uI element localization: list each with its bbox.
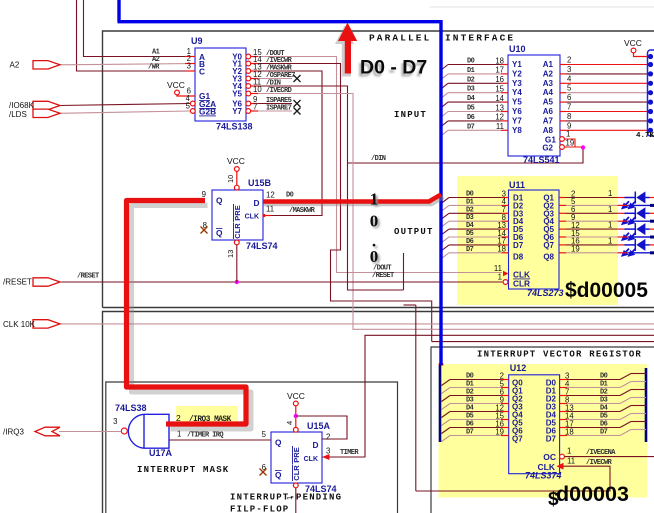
svg-text:1: 1: [608, 236, 612, 245]
U15B CLR bubble: [234, 240, 239, 245]
port /LDS: [33, 109, 60, 117]
port /IO68K: [33, 101, 60, 109]
U9 left pin stubs: [185, 56, 195, 58]
wire U11 Q1 output row: [559, 197, 566, 199]
wire U12 Q1 row (left): [450, 387, 501, 389]
no-connect X ISPARE7: [294, 108, 301, 115]
bus line left of U12: [439, 365, 442, 442]
svg-text:D0: D0: [466, 373, 474, 381]
wire U17A output to /IRQ3 port: [59, 431, 121, 433]
net TIMER to U15A.CLK: [322, 335, 654, 457]
svg-text:U17A: U17A: [149, 448, 173, 458]
svg-text:CLR: CLR: [292, 465, 301, 481]
svg-text:/IVECRD: /IVECRD: [266, 87, 292, 95]
svg-text:4: 4: [285, 421, 294, 425]
wire U12 D6 row (right): [560, 427, 567, 429]
U15B VCC circle: [234, 167, 239, 172]
register U11 74LS273: [509, 190, 560, 289]
svg-text:0: 0: [370, 247, 379, 266]
svg-text:CLK: CLK: [304, 456, 318, 463]
red annotation arrow shadow: [335, 26, 354, 77]
svg-text:A1: A1: [543, 60, 554, 69]
wire U12 D5 row (right): [560, 419, 567, 421]
U9 pin4 bubble: [190, 101, 195, 106]
svg-text:A8: A8: [543, 126, 554, 135]
wire U12 Q4 row (left): [450, 411, 501, 413]
svg-text:1: 1: [608, 205, 612, 214]
svg-text:1: 1: [566, 130, 570, 139]
svg-text:C: C: [199, 67, 205, 77]
svg-text:D5: D5: [600, 413, 608, 421]
svg-text:D1: D1: [466, 198, 474, 206]
svg-text:Y3: Y3: [512, 79, 522, 88]
svg-text:D0: D0: [466, 191, 474, 199]
wire U11 D2 input row: [449, 212, 502, 214]
svg-text:/LDS: /LDS: [9, 110, 27, 119]
svg-text:12: 12: [266, 191, 275, 200]
svg-text:D0: D0: [467, 58, 475, 66]
svg-text:A4: A4: [543, 88, 554, 97]
svg-text:Q: Q: [216, 196, 223, 206]
svg-text:19: 19: [571, 245, 580, 254]
wire A2 input to U9 pin2: [59, 64, 195, 65]
wire U12 D2 row (right): [560, 395, 567, 397]
red tick at bus top: [439, 363, 444, 366]
wire U11 Q5 output row: [559, 228, 566, 230]
svg-text:3: 3: [187, 62, 191, 71]
svg-text:INPUT: INPUT: [394, 110, 427, 120]
wire U10 D6 input row: [448, 120, 501, 122]
highlight /IRQ3 MASK label: [176, 406, 238, 423]
svg-text:16: 16: [495, 75, 504, 84]
svg-text:CLK: CLK: [538, 462, 556, 472]
svg-text:D6: D6: [467, 114, 475, 122]
wire U12 Q2 row (left): [450, 395, 501, 397]
bus line right of U12: [645, 368, 648, 442]
svg-text:/IVECWR: /IVECWR: [586, 459, 613, 467]
wire U10 D2 input row: [448, 82, 501, 84]
svg-text:0: 0: [370, 212, 379, 231]
wire U11 Q2 output row: [559, 204, 566, 206]
wire U10 A2 output row to resistor pack: [560, 73, 566, 75]
wire U10 D7 input row: [448, 129, 501, 131]
wire U10 G1 loop: [565, 139, 576, 147]
svg-text:TIMER: TIMER: [340, 449, 359, 457]
svg-text:Q: Q: [275, 470, 282, 480]
wire U11 D7 input row: [449, 252, 502, 254]
U15A CLR bubble: [293, 483, 298, 488]
svg-text:VCC: VCC: [287, 391, 305, 401]
svg-text:Y1: Y1: [512, 60, 522, 69]
wire U11 Q4 output row: [559, 220, 566, 222]
wire /IO68K to U9 pin4: [59, 104, 191, 106]
svg-text:INTERFACE: INTERFACE: [445, 33, 515, 44]
svg-text:PRE: PRE: [292, 447, 301, 462]
svg-text:74LS374: 74LS374: [525, 471, 562, 481]
net CLK 10K horizontal: [39, 323, 654, 325]
svg-text:D0: D0: [600, 373, 608, 381]
wire U12 Q0 row (left): [450, 379, 501, 381]
svg-text:INTERRUPT MASK: INTERRUPT MASK: [137, 465, 229, 475]
wire U11 D6 input row: [449, 244, 502, 246]
wire U10 A5 output row to resistor pack: [560, 101, 566, 103]
LED emission arrows: [623, 249, 636, 256]
U9 output bubbles and stubs: [249, 56, 259, 58]
svg-text:A7: A7: [543, 116, 554, 125]
svg-text:D8: D8: [513, 252, 524, 261]
svg-text:13: 13: [495, 103, 504, 112]
svg-text:7: 7: [567, 103, 571, 112]
svg-text:CLR: CLR: [513, 279, 530, 289]
svg-text:1: 1: [498, 273, 502, 282]
svg-text:VCC: VCC: [227, 156, 245, 166]
red annotation highlight path (U15B.Q to IRQ3 mask): [127, 201, 247, 425]
svg-text:D2: D2: [600, 389, 608, 397]
svg-text:74LS138: 74LS138: [216, 122, 253, 132]
svg-text:D: D: [254, 198, 260, 208]
svg-text:FILP-FLOP: FILP-FLOP: [230, 505, 289, 513]
interrupt vector register block frame: [431, 347, 654, 513]
svg-text:Q8: Q8: [543, 252, 554, 261]
svg-text:9: 9: [202, 190, 206, 199]
svg-text:5: 5: [186, 102, 191, 111]
schematic sheet frame (upper section): [103, 31, 654, 308]
svg-text:D6: D6: [600, 421, 608, 429]
wire U10 A4 output row to resistor pack: [560, 92, 566, 94]
U9 VCC pin circle: [175, 90, 180, 95]
wire U12 D4 row (right): [560, 411, 567, 413]
svg-text:U12: U12: [510, 363, 527, 373]
svg-text:OUTPUT: OUTPUT: [394, 227, 434, 237]
U12 OC bubble: [560, 454, 565, 459]
LED emission arrows: [623, 233, 636, 240]
svg-text:D4: D4: [466, 405, 474, 413]
U11 CLR bubble: [503, 280, 508, 285]
svg-text:D3: D3: [600, 397, 608, 405]
net /IVECWR U9.Y1 down: [251, 64, 432, 342]
svg-text:D3: D3: [466, 397, 474, 405]
svg-text:3: 3: [567, 65, 571, 74]
highlight U11 output register: [457, 176, 618, 305]
svg-text:D2: D2: [466, 389, 474, 397]
net /OSPARE7 stub: [251, 78, 292, 80]
svg-text:Y2: Y2: [512, 69, 522, 78]
net ISPARE5 stub: [251, 103, 292, 105]
svg-text:D7: D7: [466, 246, 474, 254]
red annotation arrow (points to PARALLEL INTERFACE): [338, 23, 357, 74]
register U12 74LS374: [509, 375, 560, 474]
svg-text:D0: D0: [286, 192, 294, 200]
wire U12 Q6 row (left): [450, 427, 501, 429]
svg-text:A3: A3: [543, 79, 554, 88]
wire U10 D0 input row: [448, 64, 501, 66]
svg-text:PRE: PRE: [233, 205, 242, 220]
svg-text:1: 1: [608, 221, 612, 230]
svg-text:D4: D4: [600, 405, 608, 413]
svg-text:ISPARE7: ISPARE7: [266, 105, 292, 113]
svg-text:Y8: Y8: [512, 126, 522, 135]
svg-text:1: 1: [567, 447, 571, 456]
wire /LDS to U9 pin5: [59, 111, 191, 113]
U9 pin5 bubble: [190, 109, 195, 114]
net /RESET horizontal: [60, 281, 503, 283]
op U9 74LS138 decoder: [195, 48, 246, 121]
svg-text:OC: OC: [543, 452, 556, 462]
wire A1 from top to U9 pin1: [84, 0, 196, 57]
U10 G2 bubble: [560, 145, 565, 150]
wire U11 D4 input row: [449, 228, 502, 230]
port /IRQ3: [35, 427, 60, 436]
svg-text:$d00005: $d00005: [565, 279, 648, 302]
svg-text:11: 11: [567, 457, 575, 466]
U15A PRE bubble: [293, 427, 298, 432]
svg-text:D1: D1: [600, 381, 608, 389]
svg-text:CLK 10K: CLK 10K: [3, 320, 36, 329]
wire U11 Q7 output row: [559, 244, 566, 246]
highlight U12 interrupt vector register: [439, 364, 648, 498]
wire U12 Q3 row (left): [450, 403, 501, 405]
svg-text:10: 10: [253, 85, 262, 94]
svg-text:Y7: Y7: [512, 116, 522, 125]
svg-text:U15B: U15B: [248, 178, 272, 188]
svg-text:74LS273: 74LS273: [527, 288, 564, 298]
wire U10 D5 input row: [448, 111, 501, 113]
svg-text:4.7K: 4.7K: [636, 132, 654, 140]
blue annotation border D0-D7 bus: [118, 0, 442, 365]
svg-text:D0 - D7: D0 - D7: [360, 57, 427, 79]
svg-text:U11: U11: [509, 180, 525, 190]
svg-text:3: 3: [113, 417, 117, 426]
svg-text:A2: A2: [10, 61, 20, 70]
svg-text:14: 14: [495, 94, 504, 103]
svg-text:Y6: Y6: [512, 107, 522, 116]
wire U10 A3 output row to resistor pack: [560, 82, 566, 84]
svg-text:/RESET: /RESET: [372, 272, 394, 280]
svg-text:D5: D5: [467, 105, 475, 113]
svg-text:1: 1: [608, 189, 612, 198]
red annotation path shadow: [132, 206, 252, 430]
junction dot /RESET U15B.CLR: [235, 280, 239, 284]
port CLK 10K: [33, 320, 60, 328]
svg-text:/IO68K: /IO68K: [9, 101, 35, 110]
schematic sheet frame (lower section): [103, 312, 654, 513]
wire U12 D1 row (right): [560, 387, 567, 389]
U10 G1 bubble: [560, 137, 565, 142]
svg-text:/MASKWR: /MASKWR: [289, 207, 316, 215]
no-connect X /OSPARE7: [294, 75, 301, 82]
svg-text:74LS541: 74LS541: [523, 155, 560, 165]
wire U10 A8 output row to resistor pack: [560, 129, 566, 131]
svg-text:G2: G2: [542, 144, 553, 153]
svg-text:D5: D5: [466, 413, 474, 421]
wire U10 A7 output row to resistor pack: [560, 120, 566, 122]
wire to vector block (y341.6): [432, 341, 654, 343]
wire U10 A1 output row to resistor pack: [560, 64, 566, 66]
svg-text:Q: Q: [216, 228, 223, 238]
LED D2: [618, 212, 625, 214]
wire VCC to U15A D: [296, 416, 347, 439]
wire U12 D0 row (right): [560, 379, 567, 381]
wire U10 D4 input row: [448, 101, 501, 103]
svg-text:/IVECENA: /IVECENA: [586, 449, 616, 457]
faint window edge line: [430, 6, 654, 8]
svg-text:1: 1: [370, 190, 379, 209]
svg-text:Y4: Y4: [512, 88, 522, 97]
svg-text:11: 11: [496, 122, 504, 131]
red annotation D0 line shadow: [263, 197, 444, 204]
svg-text:D: D: [313, 440, 319, 450]
svg-text:18: 18: [497, 245, 506, 254]
svg-text:D7: D7: [546, 435, 557, 444]
LED D4: [618, 244, 625, 246]
svg-text:/WR: /WR: [148, 64, 160, 72]
svg-text:D3: D3: [467, 86, 475, 94]
svg-text:/RESET: /RESET: [77, 273, 99, 281]
svg-text:A2: A2: [543, 69, 554, 78]
buffer U10 74LS541: [508, 55, 560, 156]
junction dot G2//DIN: [581, 145, 585, 149]
svg-text:D1: D1: [467, 67, 475, 75]
svg-text:Q7: Q7: [512, 435, 523, 444]
svg-text:D2: D2: [466, 206, 474, 214]
svg-text:D5: D5: [466, 230, 474, 238]
net /IVECENA: [565, 456, 654, 458]
wire U12 Q5 row (left): [450, 419, 501, 421]
svg-text:74LS74: 74LS74: [305, 484, 337, 494]
svg-text:12: 12: [495, 113, 504, 122]
svg-text:D1: D1: [466, 381, 474, 389]
port A2: [33, 61, 60, 69]
svg-text:19: 19: [566, 139, 575, 148]
svg-text:G2B: G2B: [199, 107, 216, 117]
svg-text:18: 18: [565, 428, 574, 437]
wire y305 jog: [404, 304, 416, 306]
svg-text:4: 4: [567, 74, 572, 83]
svg-text:6: 6: [567, 93, 571, 102]
svg-text:PARALLEL: PARALLEL: [369, 33, 431, 44]
svg-text:D4: D4: [467, 95, 475, 103]
svg-text:Q7: Q7: [543, 241, 554, 250]
net /DOUT U9.Y0 to U11.CLK: [251, 57, 502, 273]
wire U10 D1 input row: [448, 73, 501, 75]
svg-text:d00003: d00003: [556, 482, 629, 506]
svg-text:5: 5: [567, 84, 572, 93]
net /MASKWR U9.Y2 to U15B.CLK: [251, 71, 322, 216]
svg-text:U15A: U15A: [307, 421, 331, 431]
wire U11 D5 input row: [449, 236, 502, 238]
svg-text:18: 18: [495, 56, 504, 65]
resistor pack pins: [648, 54, 653, 59]
wire stair to lower block: [348, 163, 416, 491]
wire U11 Q3 output row: [559, 212, 566, 214]
svg-text:D7: D7: [513, 241, 524, 250]
net /DIN U9.Y4 to U10.G1/G2: [251, 86, 583, 163]
LED D1: [618, 197, 625, 199]
wire U12 D3 row (right): [560, 403, 567, 405]
svg-text:Y5: Y5: [512, 98, 522, 107]
svg-text:D7: D7: [467, 123, 475, 131]
wire U17A input pin2 /IRQ3 MASK: [169, 425, 246, 427]
svg-text:CLR: CLR: [233, 223, 242, 239]
LED emission arrows: [623, 201, 636, 208]
wire U10 D3 input row: [448, 92, 501, 94]
svg-text:/DIN: /DIN: [371, 155, 386, 163]
svg-text:19: 19: [495, 428, 504, 437]
junction dot U15A D tie: [294, 414, 298, 418]
net /IVECRD U9.Y5: [251, 94, 654, 330]
svg-text:17: 17: [495, 66, 504, 75]
svg-text:7: 7: [253, 103, 257, 112]
svg-text:13: 13: [226, 250, 235, 258]
svg-text:D6: D6: [466, 238, 474, 246]
svg-text:74LS38: 74LS38: [115, 403, 147, 413]
wire U12 Q7 row (left): [450, 435, 501, 437]
svg-text:/IRQ3: /IRQ3: [3, 428, 24, 437]
interrupt mask block frame: [106, 382, 398, 513]
wire U11 Q6 output row: [559, 236, 566, 238]
svg-text:5: 5: [262, 430, 267, 439]
wire U17A input pin1 /TIMER IRQ: [169, 439, 271, 441]
svg-text:A5: A5: [543, 98, 554, 107]
svg-text:D6: D6: [466, 421, 474, 429]
U15B PRE bubble: [234, 185, 239, 190]
LED D3: [618, 228, 625, 230]
svg-text:/RESET: /RESET: [3, 278, 32, 287]
svg-text:VCC: VCC: [624, 38, 642, 48]
svg-text:1: 1: [285, 496, 294, 500]
svg-text:8: 8: [567, 112, 571, 121]
flip-flop U15A 74LS74: [271, 432, 322, 483]
svg-text:D7: D7: [466, 429, 474, 437]
gate U17A 74LS38 nand: [128, 414, 169, 448]
net ISPARE7 stub: [251, 110, 292, 112]
wire U11 D3 input row: [449, 220, 502, 222]
VCC pin circle: [631, 48, 636, 53]
svg-text:D3: D3: [466, 214, 474, 222]
U9 pin6 wire from VCC: [177, 95, 195, 96]
svg-text:2: 2: [567, 56, 571, 65]
svg-text:U9: U9: [191, 36, 203, 46]
U17A output bubble: [121, 428, 127, 434]
no-connect X ISPARE5: [294, 100, 301, 107]
svg-text:CLK: CLK: [245, 214, 259, 221]
svg-text:INTERRUPT VECTOR REGISTOR: INTERRUPT VECTOR REGISTOR: [477, 350, 642, 360]
svg-text:74LS74: 74LS74: [246, 241, 278, 251]
wire U12 D7 row (right): [560, 435, 567, 437]
svg-text:D7: D7: [600, 429, 608, 437]
wire U10 A6 output row to resistor pack: [560, 111, 566, 113]
svg-text:U10: U10: [509, 44, 526, 54]
svg-text:Y7: Y7: [232, 107, 242, 116]
svg-text:VCC: VCC: [167, 80, 185, 90]
svg-text:A6: A6: [543, 107, 554, 116]
wire U11 D0 input row: [449, 197, 502, 199]
red annotation D0 line (U15B.D to U11.D1): [263, 195, 441, 202]
wire U10 G2 to /DIN: [565, 146, 584, 148]
svg-text:15: 15: [495, 85, 504, 94]
wire U11 D1 input row: [449, 204, 502, 206]
svg-text:2: 2: [326, 433, 330, 442]
flip-flop U15B 74LS74: [212, 190, 263, 240]
svg-text:Q: Q: [275, 438, 282, 448]
wire U11 Q8 output row: [559, 252, 566, 254]
svg-text:3: 3: [326, 447, 330, 456]
svg-text:Y5: Y5: [232, 90, 242, 99]
U15A VCC circle: [293, 401, 298, 406]
svg-text:D4: D4: [466, 222, 474, 230]
port /RESET: [33, 278, 60, 286]
svg-text:/TIMER IRQ: /TIMER IRQ: [187, 432, 223, 440]
